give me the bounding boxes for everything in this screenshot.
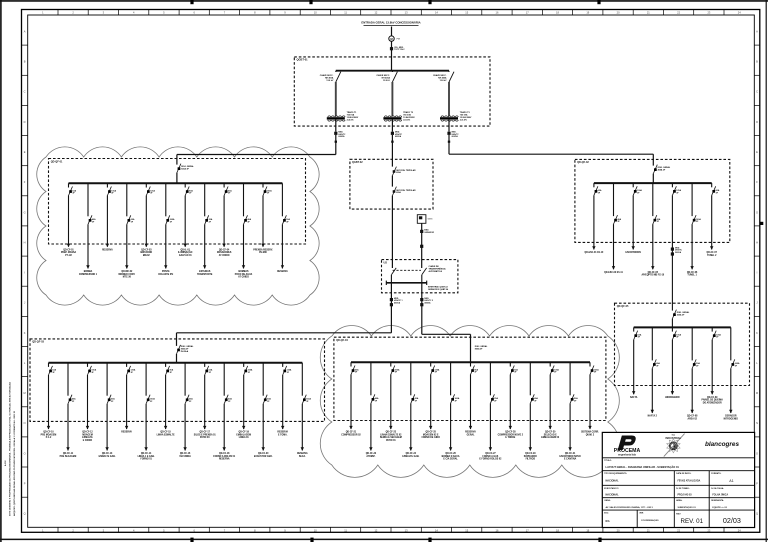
svg-text:LINHA ESMALTE 02: LINHA ESMALTE 02 [380, 433, 402, 436]
svg-text:A: A [24, 30, 26, 34]
feeder breaker QD-QF-03.12 [262, 363, 264, 396]
wire LV [335, 120, 337, 132]
svg-text:SECA.: SECA. [299, 455, 306, 458]
meter gen 2 [420, 245, 423, 248]
feeder breaker QD-QF-03.5 [126, 363, 128, 367]
svg-text:SERRA E SECAGEM: SERRA E SECAGEM [380, 436, 402, 439]
feeder breaker QD-QF-01.6 [165, 183, 167, 216]
wire feeder QD-QF-01.4 [126, 224, 128, 268]
wire feeder QD-QF-03.12 [262, 404, 264, 451]
wire feeder QD-QF-01.11 [262, 196, 264, 247]
svg-text:630A: 630A [396, 171, 401, 174]
svg-text:QD-QF-05: QD-QF-05 [617, 305, 629, 308]
svg-text:N: N [24, 421, 26, 425]
wire feeder QD-QF-03.14 [301, 404, 303, 451]
svg-text:IN 65kA: IN 65kA [181, 350, 189, 353]
wire feeder QD-QF-03.6 [145, 404, 147, 451]
feeder breaker QD-QF-01.7 [184, 183, 186, 187]
svg-text:Q: Q [756, 512, 758, 516]
svg-text:LINHA 1 E GAB.: LINHA 1 E GAB. [138, 455, 155, 458]
svg-text:RESERVA: RESERVA [102, 248, 113, 251]
svg-text:QD-CF-01: QD-CF-01 [63, 249, 74, 251]
svg-text:PRENSA RESERV.: PRENSA RESERV. [253, 248, 273, 251]
svg-text:A: A [756, 30, 758, 34]
svg-text:630A 3F: 630A 3F [181, 168, 189, 171]
wire feeder QD-QF-02.6 [691, 224, 693, 269]
svg-text:QD-IL-01: QD-IL-01 [181, 249, 191, 251]
svg-text:VIA UMIDA: VIA UMIDA [179, 455, 191, 458]
svg-text:NAFTA 2: NAFTA 2 [648, 415, 658, 418]
feeder breaker QD-QF-01.8 [204, 183, 206, 216]
wire feeder QD-QF-05.5 [711, 340, 713, 395]
wire feeder QD-QF-04.6 [450, 403, 452, 450]
svg-text:BOMBA D AGUA: BOMBA D AGUA [442, 455, 460, 458]
svg-text:D: D [756, 120, 758, 124]
feeder breaker QD-QF-01.11 [262, 183, 264, 187]
svg-text:TC/TP 15kV: TC/TP 15kV [394, 49, 405, 51]
feeder breaker QD-QF-04.4 [410, 362, 412, 395]
wire feeder QD-QF-04.9 [509, 375, 511, 430]
svg-text:400/5A: 400/5A [424, 301, 431, 304]
feeder breaker QD-QF-05.4 [691, 327, 693, 360]
svg-text:ESTE DESENHO E PROPRIEDADE DA: ESTE DESENHO E PROPRIEDADE DA PROCEMA EN… [9, 382, 12, 516]
feeder breaker QD-QF-03.11 [243, 363, 245, 367]
feeder breaker QD-QF-04.1 [350, 362, 352, 366]
svg-text:DESENHISTA:: DESENHISTA: [711, 499, 724, 502]
svg-text:K: K [24, 331, 26, 335]
svg-text:QD-MC-02: QD-MC-02 [121, 271, 133, 273]
svg-text:COMPRESSOR NOVO 2: COMPRESSOR NOVO 2 [498, 434, 524, 436]
svg-text:SOPRADOR: SOPRADOR [524, 455, 537, 458]
svg-text:QD-CF-16: QD-CF-16 [180, 453, 191, 455]
svg-text:FOLHA ÚNICA: FOLHA ÚNICA [712, 494, 728, 497]
feeder breaker QD-QF-01.1 [68, 183, 70, 187]
feeder breaker QD-QF-03.14 [301, 363, 303, 396]
svg-text:400A 3F: 400A 3F [658, 169, 666, 172]
svg-text:PAINEL DE QUEIMA: PAINEL DE QUEIMA [701, 399, 723, 402]
svg-text:P-1-2: P-1-2 [46, 437, 52, 439]
wire feeder QD-QF-05.1 [633, 340, 635, 395]
wire feeder QD-QF-03.10 [223, 404, 225, 451]
wire T2 down [391, 135, 393, 159]
wire feeder QD-QF-04.13 [589, 375, 591, 430]
meter kWh T2 [391, 132, 394, 135]
feeder breaker QD-QF-05.3 [671, 327, 673, 331]
wire MV branch [391, 82, 393, 116]
svg-text:ESMALTE GAB.: ESMALTE GAB. [99, 455, 116, 458]
feeder breaker QD-QF-01.4 [126, 183, 128, 216]
svg-text:SELECAO E: SELECAO E [544, 433, 558, 436]
switch S1 [392, 167, 396, 176]
title block frame [602, 432, 754, 527]
svg-text:200/5A: 200/5A [675, 251, 682, 254]
svg-text:COMPRESSOR 1: COMPRESSOR 1 [79, 274, 98, 276]
svg-text:QD-CF-24: QD-CF-24 [406, 452, 417, 455]
wire T2 bus drop [391, 159, 393, 166]
wire feeder QD-QF-01.12 [281, 224, 283, 268]
wire to QD-QF-04 [422, 333, 471, 335]
svg-text:QD-CF-09: QD-CF-09 [707, 397, 718, 399]
svg-text:QD-QF-03: QD-QF-03 [32, 341, 44, 344]
svg-text:N/A: N/A [606, 520, 610, 523]
wire feeder QD-QF-04.5 [430, 375, 432, 430]
svg-text:Z=5.5%: Z=5.5% [347, 120, 354, 122]
wire feeder QD-QF-03.11 [243, 375, 245, 429]
svg-text:QD-CF-05: QD-CF-05 [648, 272, 659, 274]
svg-text:QD-CF-10: QD-CF-10 [43, 432, 54, 434]
svg-text:AREA:: AREA: [676, 499, 682, 502]
bus QD-QF-03 [49, 362, 303, 364]
wire transfer out right [421, 283, 423, 335]
svg-text:630A: 630A [396, 191, 401, 194]
svg-text:RESERVA: RESERVA [277, 270, 288, 273]
svg-text:QD-CF-18: QD-CF-18 [219, 453, 230, 455]
svg-text:REV:: REV: [676, 513, 681, 515]
svg-text:EXECUTADO P/:: EXECUTADO P/: [604, 487, 619, 490]
svg-text:RESERVA: RESERVA [277, 431, 288, 434]
svg-text:QD-CF-20: QD-CF-20 [258, 453, 269, 455]
feed wire QD-QF-02 with breaker [653, 165, 657, 174]
wire feeder QD-QF-05.4 [691, 368, 693, 413]
svg-text:ILUMINAÇÃO: ILUMINAÇÃO [178, 251, 193, 254]
svg-text:A1: A1 [729, 479, 733, 483]
meter cell TC/TP [390, 47, 393, 50]
feeder breaker QD-QF-04.11 [549, 362, 551, 366]
wire feeder QD-QF-03.2 [67, 404, 69, 451]
wire feeder QD-QF-01.7 [184, 196, 186, 247]
wire feeder QD-QF-05.6 [730, 368, 732, 413]
wire feeder QD-QF-05.3 [671, 340, 673, 395]
svg-text:ESTEIRAS: ESTEIRAS [199, 270, 211, 273]
feeder breaker QD-QF-03.9 [204, 363, 206, 367]
svg-text:EMBALAGEM 02: EMBALAGEM 02 [541, 436, 560, 439]
svg-text:SISTEMA CORR.: SISTEMA CORR. [581, 431, 599, 434]
svg-text:PROJ 042-03: PROJ 042-03 [678, 494, 693, 497]
fold marks top [190, 0, 193, 4]
svg-text:NITROGENIO: NITROGENIO [724, 418, 739, 420]
wire feeder QD-QF-02.1 [593, 195, 595, 249]
svg-text:PREP. MASSA: PREP. MASSA [61, 251, 77, 254]
wire MV branch [448, 82, 450, 116]
svg-text:BOMBA: BOMBA [84, 270, 93, 273]
wire MV branch [335, 82, 337, 116]
svg-text:QD-CF-15: QD-CF-15 [160, 432, 171, 434]
wire feeder QD-QF-01.3 [106, 196, 108, 247]
svg-text:E FORNO ROLOS 02: E FORNO ROLOS 02 [479, 459, 502, 461]
svg-text:QD-CF-14: QD-CF-14 [141, 452, 152, 455]
feeder breaker QD-QF-03.8 [184, 363, 186, 396]
svg-text:SILOS E PRENSA 01: SILOS E PRENSA 01 [194, 433, 217, 436]
svg-text:INDUSTRIAL: INDUSTRIAL [666, 436, 682, 440]
svg-text:H: H [24, 240, 26, 244]
wire feeder QD-QF-01.5 [145, 196, 147, 247]
wire feeder QD-QF-03.13 [282, 375, 284, 429]
transfer switch blade left [391, 268, 396, 275]
wire LV [448, 120, 450, 132]
svg-text:TITULO:: TITULO: [604, 460, 612, 462]
meter kWh QD-QF-05 [671, 248, 674, 251]
svg-text:M: M [24, 391, 26, 395]
bus QD-QF-01 [69, 182, 283, 184]
feeder breaker QD-QF-01.2 [87, 183, 89, 216]
bus QD-QF-05 [634, 326, 731, 328]
svg-text:TUNEL 2: TUNEL 2 [707, 255, 717, 257]
svg-text:G: G [756, 210, 758, 214]
svg-text:MOAGEM 02 E: MOAGEM 02 E [423, 433, 439, 436]
feeder breaker QD-QF-05.6 [730, 327, 732, 360]
logo PROCEMA [618, 436, 637, 451]
panel QD-QF-04 [334, 337, 606, 420]
feeder breaker QD-QF-01.3 [106, 183, 108, 187]
svg-text:Q: Q [24, 512, 26, 516]
feeder breaker QD-QF-05.2 [651, 327, 653, 360]
transformer T1 [327, 117, 345, 119]
svg-text:P: P [756, 482, 758, 486]
svg-text:AP/EQPTO MB FG-10: AP/EQPTO MB FG-10 [641, 274, 664, 277]
svg-text:B: B [756, 60, 758, 64]
svg-text:PRE MOAGEM: PRE MOAGEM [41, 433, 57, 436]
feeder breaker QD-QF-02.2 [613, 183, 615, 216]
feeder breaker QD-QF-04.8 [489, 362, 491, 395]
feeder breaker QD-QF-04.9 [509, 362, 511, 366]
svg-text:MOAGEM: MOAGEM [82, 433, 93, 436]
wire feeder QD-QF-04.8 [489, 403, 491, 450]
svg-text:ESMALTE GAB.: ESMALTE GAB. [402, 455, 419, 458]
switch S2 [392, 187, 396, 196]
svg-text:GALPÃO 01: GALPÃO 01 [179, 254, 193, 257]
svg-text:BRITADOR: BRITADOR [140, 251, 152, 254]
svg-text:ESCRITORIO NOVO: ESCRITORIO NOVO [559, 456, 580, 458]
svg-text:ESC:: ESC: [604, 513, 609, 515]
svg-text:RESERVA: RESERVA [465, 431, 476, 434]
wire main incoming [391, 27, 393, 36]
svg-text:ROLANTE 05t: ROLANTE 05t [158, 273, 173, 276]
feeder breaker QD-QF-05.1 [633, 327, 635, 331]
svg-text:PATIO 01: PATIO 01 [386, 439, 396, 442]
svg-text:N: N [756, 421, 758, 425]
wire feeder QD-QF-02.3 [632, 195, 634, 249]
transformer T3 [440, 117, 458, 119]
feeder breaker QD-QF-04.2 [370, 362, 372, 395]
meter out right [420, 298, 423, 301]
transfer switch blade right [422, 268, 427, 275]
svg-text:QD-CF-11: QD-CF-11 [63, 453, 74, 455]
svg-text:02/03: 02/03 [723, 516, 741, 525]
bus QD-QF-04 [351, 361, 590, 363]
wire feeder QD-QF-04.12 [569, 403, 571, 450]
panel QD-QF-02 [575, 159, 730, 242]
feeder breaker QD-QF-03.3 [87, 363, 89, 367]
wire feeder QD-QF-01.9 [223, 196, 225, 247]
svg-text:DATA DE INICIO:: DATA DE INICIO: [676, 472, 691, 475]
feed breaker QD-QF-03 [177, 345, 181, 354]
transformer T2 [383, 117, 401, 119]
svg-text:QD-ESC-01 R1-10: QD-ESC-01 R1-10 [585, 252, 605, 254]
svg-text:N. DA FOLHA:: N. DA FOLHA: [711, 487, 724, 490]
svg-text:A-202: A-202 [4, 460, 7, 466]
wire feeder QD-QF-04.10 [529, 403, 531, 450]
wire feeder QD-QF-04.3 [390, 375, 392, 430]
svg-text:E CIA GERAL: E CIA GERAL [443, 458, 458, 461]
feeder breaker QD-QF-04.10 [529, 362, 531, 395]
svg-text:RESERVA: RESERVA [297, 452, 308, 455]
wire transfer out left [390, 283, 392, 333]
feed breaker QD-QF-05 [672, 310, 676, 319]
svg-text:Z=5.5%: Z=5.5% [403, 120, 410, 122]
svg-text:BM-02: BM-02 [143, 255, 150, 257]
svg-text:B: B [24, 60, 26, 64]
wire feed-through to QD-QF-05 [671, 195, 673, 310]
transfer linkage (dashed) [393, 269, 421, 271]
svg-text:E: E [24, 150, 26, 154]
svg-text:QD-CF-22: QD-CF-22 [366, 453, 377, 455]
svg-text:ARQUIVO: QGBT-UNIFILAR-GERAL-R: ARQUIVO: QGBT-UNIFILAR-GERAL-R01.DWG PLO… [13, 410, 16, 516]
svg-text:600/5A: 600/5A [452, 135, 459, 138]
emblem gear [667, 439, 680, 453]
svg-text:LINHA ESMALTE: LINHA ESMALTE [157, 433, 175, 436]
svg-text:RESERVA: RESERVA [219, 458, 230, 461]
wire feeder QD-QF-04.11 [549, 375, 551, 430]
svg-text:QD-CF-31: QD-CF-31 [565, 453, 576, 455]
svg-text:FORNO A ROLOS 01: FORNO A ROLOS 01 [213, 455, 236, 458]
svg-text:VER:: VER: [639, 513, 644, 515]
wire feeder QD-QF-03.3 [87, 375, 89, 429]
svg-text:N. DE TOMBO:: N. DE TOMBO: [676, 488, 690, 490]
svg-text:NACIONAL: NACIONAL [606, 494, 620, 497]
svg-text:POCO DE AGUA: POCO DE AGUA [235, 273, 253, 276]
svg-text:P: P [24, 482, 26, 486]
svg-text:Z=5.5%: Z=5.5% [460, 120, 467, 122]
svg-text:NACIONAL: NACIONAL [606, 480, 620, 483]
feeder breaker QD-QF-04.7 [470, 362, 472, 366]
feeder breaker QD-QF-01.12 [281, 183, 283, 216]
feeder breaker QD-QF-02.4 [652, 183, 654, 216]
svg-text:400/5A: 400/5A [394, 301, 401, 304]
feeder breaker QD-QF-03.4 [106, 363, 108, 396]
panel QGBT-02 (seccionadora geral BT) [350, 159, 433, 209]
svg-text:QD-CF-26: QD-CF-26 [445, 453, 456, 455]
panel QGBT-01 (cubiculo de medicao e trafos) [294, 57, 490, 126]
svg-text:QD-CF-08: QD-CF-08 [687, 416, 698, 418]
svg-text:QD-CF-19: QD-CF-19 [239, 432, 250, 434]
wire generator down [421, 223, 423, 268]
wire feeder QD-QF-05.2 [651, 368, 653, 413]
meter kWh T1 [334, 132, 337, 135]
panel QD-QF-03 [30, 339, 325, 422]
fold mark right edge [760, 222, 763, 225]
svg-text:QD-CF-06: QD-CF-06 [687, 272, 698, 274]
svg-text:G: G [24, 210, 26, 214]
wire feeder QD-QF-03.4 [106, 404, 108, 451]
svg-text:engenharia ltda: engenharia ltda [618, 454, 636, 457]
svg-text:FORNO 01: FORNO 01 [140, 459, 152, 461]
feeder breaker QD-QF-03.6 [145, 363, 147, 396]
svg-text:ATOMIZ.: ATOMIZ. [366, 455, 375, 458]
disconnect switch CH1 [335, 71, 337, 72]
meter gen 1 [420, 230, 423, 233]
svg-text:NAFTA: NAFTA [630, 396, 638, 399]
svg-text:QGBT-02: QGBT-02 [352, 161, 363, 164]
feeder breaker QD-QF-03.1 [48, 363, 50, 367]
svg-text:ESCRITORIOS: ESCRITORIOS [625, 252, 641, 254]
wire feeder QD-QF-03.1 [48, 375, 50, 429]
svg-text:GMG: GMG [428, 219, 433, 221]
svg-text:FORNO DE GIRO: FORNO DE GIRO [422, 437, 441, 439]
wire to transfer [391, 196, 393, 268]
svg-text:TRANSPORTE: TRANSPORTE [197, 273, 213, 276]
feeder breaker QD-QF-05.5 [711, 327, 713, 331]
svg-text:EXAUSTOR GER.: EXAUSTOR GER. [254, 455, 273, 458]
svg-text:E: E [756, 150, 758, 154]
feeder breaker QD-QF-03.13 [282, 363, 284, 367]
svg-text:FILTROS: FILTROS [526, 459, 536, 461]
svg-text:QD-CF-27: QD-CF-27 [485, 453, 496, 455]
svg-text:GERADOR E QGBT-04: GERADOR E QGBT-04 [428, 288, 449, 291]
fold marks bottom [190, 538, 193, 542]
svg-text:AUTOMÁTICA: AUTOMÁTICA [429, 270, 443, 273]
wire feeder QD-QF-01.1 [68, 196, 70, 247]
meter M1 (medidor concessionaria) [389, 36, 394, 41]
svg-text:OBRA:: OBRA: [604, 499, 611, 502]
svg-text:E TORRE: E TORRE [505, 437, 515, 439]
svg-text:QD-QF-02: QD-QF-02 [577, 161, 589, 164]
svg-text:PONTE: PONTE [162, 271, 170, 273]
feeder breaker QD-QF-01.5 [145, 183, 147, 187]
feeder breaker QD-QF-03.7 [165, 363, 167, 367]
wire feeder QD-QF-03.8 [184, 404, 186, 451]
svg-text:FEV/03 ATUALIZADA: FEV/03 ATUALIZADA [678, 480, 701, 483]
svg-text:E TOMA.: E TOMA. [278, 433, 288, 436]
svg-text:QD-CF-25: QD-CF-25 [426, 432, 437, 434]
panel QD-QF-05 [615, 303, 750, 385]
feed wire QD-QF-01 with breaker [177, 164, 181, 173]
svg-text:K: K [756, 331, 758, 335]
svg-text:QD-QF-01: QD-QF-01 [51, 160, 63, 163]
svg-text:QD-CF-07: QD-CF-07 [707, 252, 718, 254]
wire feeder QD-QF-01.10 [243, 224, 245, 268]
wire feeder QD-QF-01.6 [165, 224, 167, 268]
svg-text:E OXIDO: E OXIDO [83, 440, 93, 442]
svg-text:US: US [384, 262, 388, 265]
svg-text:M: M [756, 391, 758, 395]
wire feeder QD-QF-02.7 [711, 195, 713, 249]
wire to QD-QF-03 [177, 332, 392, 334]
bus QGBT [336, 70, 449, 72]
feeder breaker QD-QF-04.3 [390, 362, 392, 366]
feeder breaker QD-QF-04.5 [430, 362, 432, 366]
svg-text:EQUIPE <> 03: EQUIPE <> 03 [712, 506, 727, 509]
svg-text:13.8 kV: 13.8 kV [440, 80, 448, 82]
svg-text:QGBT-01: QGBT-01 [297, 58, 309, 62]
svg-text:GERADOR: GERADOR [424, 231, 434, 234]
feeder breaker QD-QF-04.6 [450, 362, 452, 395]
svg-text:ESMALTE: ESMALTE [82, 436, 93, 439]
wire feeder QD-QF-04.7 [470, 375, 472, 430]
svg-text:AREA 02: AREA 02 [687, 417, 697, 420]
svg-text:RESERVA: RESERVA [121, 431, 132, 434]
revision cloud 1 (left distribution area) [37, 147, 319, 305]
meter out left [390, 298, 393, 301]
svg-text:REV. 01: REV. 01 [681, 518, 704, 525]
svg-text:PATIO 03: PATIO 03 [200, 436, 210, 439]
feeder breaker QD-QF-01.10 [243, 183, 245, 216]
svg-text:COORDENAÇÃO: COORDENAÇÃO [641, 519, 659, 522]
svg-text:FORNO A GAS: FORNO A GAS [483, 455, 499, 458]
svg-text:O: O [756, 451, 758, 455]
svg-text:O: O [24, 451, 26, 455]
transfer bar [386, 282, 426, 284]
svg-text:QD-CF-03: QD-CF-03 [141, 249, 152, 251]
